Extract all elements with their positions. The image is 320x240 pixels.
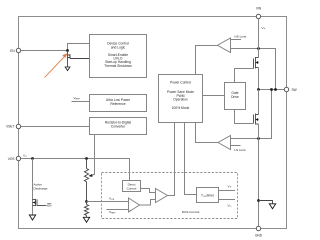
svg-text:EN: EN [47,203,51,207]
annotation orange arrow [45,54,68,78]
node EN junction [66,49,69,52]
block U7 Ton timer [197,188,219,203]
wire VSET to converter [21,126,90,128]
wire VOS pin line [21,159,130,181]
wire EN pin to junction [21,50,68,52]
svg-text:Discharge: Discharge [34,186,48,190]
resistor R2 feedback bottom [84,202,88,218]
node power ground junction [257,199,260,202]
op-amp error comparator [129,198,140,212]
svg-text:Thermal Shutdown: Thermal Shutdown [104,64,132,68]
wire SW node [259,89,285,91]
wire NMOS source to GND [258,124,260,227]
wire PMOS drain to SW [258,68,260,90]
node LS sense on NMOS source [257,137,260,140]
svg-text:DCS-Control: DCS-Control [182,210,200,214]
wire comparator output to summer [140,200,156,206]
pin GND [255,226,263,237]
svg-text:Converter: Converter [111,125,126,129]
node SW junction 2 [270,88,273,91]
comparator HS Limit [196,34,276,89]
block U3 Resistor-to-Digital Converter [90,118,147,135]
svg-text:V+: V+ [262,26,266,30]
wire comparator VOS input [87,201,129,203]
comparator LS Limit [196,90,272,152]
box DCS-Control dashed [102,173,238,219]
wire EN junction up-over to Device Control [68,44,90,51]
wire VREF stub [72,101,90,103]
wire Power Control to Ton timer [185,123,197,195]
svg-text:LS Limit: LS Limit [234,148,245,152]
block U5 Gate Drive [225,83,246,110]
svg-text:VOS: VOS [8,157,15,161]
svg-text:VIN: VIN [256,7,262,11]
svg-text:Control: Control [127,186,137,190]
pin VSET [6,124,21,128]
wire Power Control to Gate Drive [203,95,225,97]
svg-text:Reference: Reference [110,102,125,106]
node SW junction 1 [257,88,260,91]
svg-text:GND: GND [255,234,263,238]
svg-text:-: - [129,200,130,204]
block U2 Ultra Low Power Reference [90,95,147,112]
wire Direct Control output [141,189,156,193]
pin VOS [8,156,21,161]
svg-text:Drive: Drive [231,95,239,99]
svg-text:V+: V+ [228,185,232,189]
op-amp DCS summer [156,189,168,203]
node HS sense on V+ [257,47,260,50]
node feedback midpoint [85,200,88,203]
resistor R1 variable feedback top [84,159,88,202]
transistor Q1 high-side PMOS [254,57,259,69]
svg-text:VSET: VSET [6,125,14,129]
block U1 Device Control and Logic [90,35,147,78]
wire active discharge drain [32,159,34,216]
svg-text:Power Control: Power Control [170,81,191,85]
wire Ton timer VO stub [219,199,236,201]
wire summer output to Power Control [168,123,175,196]
wire R2D wiper control arrow [94,135,96,175]
svg-text:SW: SW [292,88,297,92]
pin EN [10,48,21,53]
wire VIN V+ rail [258,19,260,58]
pin SW [284,87,296,92]
ground active discharge [29,215,35,220]
svg-text:and Logic: and Logic [111,45,126,49]
wire Ton timer V+ stub [219,190,236,192]
svg-text:EN: EN [10,49,15,53]
node VOS junction active discharge [31,157,34,160]
node VOS junction divider [85,157,88,160]
transistor Q2 low-side NMOS [254,114,259,125]
wire PMOS gate from Gate Drive [235,69,254,83]
wire NMOS drain to SW [258,90,260,115]
wire comparator VREF input [107,209,129,211]
ground arrow EN pull-down [65,67,70,71]
switch smart-enable pull-down [68,51,90,68]
svg-text:Operation: Operation [173,98,188,102]
wire NMOS gate from Gate Drive [235,110,254,124]
block U4 Power Control [159,75,203,123]
block U6 Direct Control [123,181,141,192]
wire to power ground symbol [259,201,273,204]
ground power stage [269,204,275,209]
pin VIN [256,7,262,19]
svg-text:100% Mode: 100% Mode [172,106,190,110]
IC boundary [19,17,287,229]
node SW junction 3 [274,88,277,91]
svg-text:HS Limit: HS Limit [235,34,247,38]
transistor Q3 active discharge [33,199,47,206]
ground feedback divider [83,217,89,222]
